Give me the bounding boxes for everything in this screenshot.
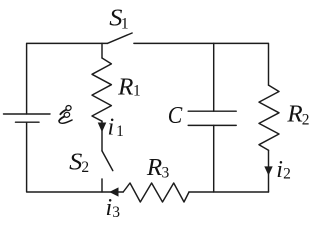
resistor R3 zigzag <box>123 183 189 202</box>
switch S2 blade (open) <box>102 151 113 171</box>
label EMF script E <box>59 105 72 124</box>
svg-text:2: 2 <box>302 111 310 128</box>
svg-text:i: i <box>108 114 115 140</box>
resistor R2 zigzag <box>259 85 279 150</box>
svg-text:i: i <box>106 195 113 221</box>
battery EMF short plate <box>16 121 40 123</box>
svg-text:R: R <box>117 74 134 100</box>
switch S1 blade (open) <box>107 33 132 43</box>
arrow i1 (current down through R1 branch) <box>98 123 107 133</box>
svg-text:S: S <box>69 150 82 176</box>
wire: S1 right contact along top to top-right corner down to R2 <box>134 43 269 85</box>
battery EMF long plate <box>4 113 51 115</box>
wire: battery bottom to bottom-left corner to R3 <box>27 122 124 192</box>
resistor R1 zigzag <box>92 58 111 121</box>
svg-text:C: C <box>168 103 183 129</box>
wire: R3 to bottom-right corner <box>189 191 269 193</box>
arrow i3 (current left along bottom wire) <box>109 187 118 196</box>
svg-text:1: 1 <box>133 83 141 100</box>
wire: capacitor branch from top wire down to top plate <box>213 43 215 111</box>
wire: battery top to top-left corner to S1 pivot <box>27 43 108 114</box>
svg-text:i: i <box>276 157 283 183</box>
switch S2 bottom contact stub <box>101 179 103 192</box>
wire: R2 bottom to bottom-right corner (carries i2 arrow) <box>268 150 270 192</box>
svg-text:1: 1 <box>116 123 124 140</box>
svg-text:R: R <box>286 101 303 127</box>
wire: R1 bottom to S2 pivot (carries i1 arrow) <box>101 121 103 151</box>
svg-text:3: 3 <box>112 204 120 221</box>
svg-text:3: 3 <box>162 164 170 181</box>
svg-text:2: 2 <box>283 166 291 183</box>
wire: capacitor bottom plate down to bottom wire <box>213 125 215 192</box>
svg-text:1: 1 <box>121 16 129 33</box>
svg-text:2: 2 <box>81 159 89 176</box>
svg-text:R: R <box>146 155 163 181</box>
wire: R1 branch from top wire down <box>101 43 103 58</box>
capacitor C top plate <box>188 110 236 112</box>
capacitor C bottom plate <box>188 124 236 126</box>
arrow i2 (current down through R2 branch) <box>264 166 272 175</box>
